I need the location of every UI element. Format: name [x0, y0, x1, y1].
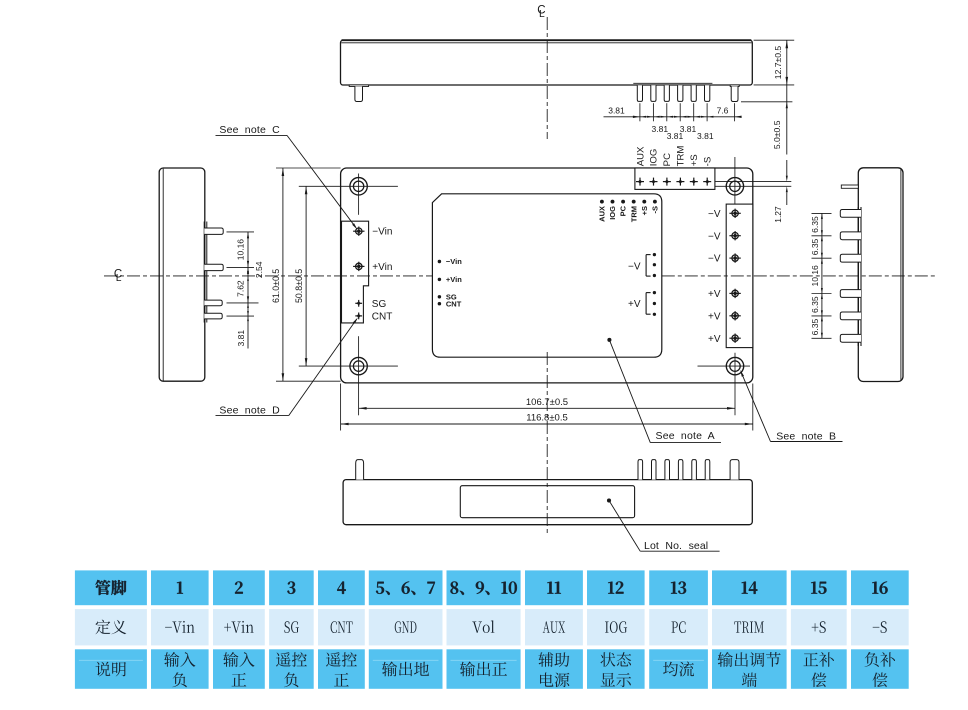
svg-text:+V: +V: [708, 334, 721, 345]
svg-text:See note B: See note B: [776, 430, 836, 442]
svg-text:−V: −V: [708, 231, 721, 242]
svg-text:−V: −V: [708, 254, 721, 265]
svg-text:CNT: CNT: [372, 311, 393, 322]
svg-text:+S: +S: [640, 206, 649, 215]
svg-text:6.35: 6.35: [810, 216, 820, 233]
svg-text:3.81: 3.81: [697, 131, 714, 141]
svg-text:6.35: 6.35: [810, 296, 820, 313]
svg-text:+Vin: +Vin: [372, 262, 392, 273]
svg-text:61.0±0.5: 61.0±0.5: [271, 269, 281, 303]
svg-text:IOG: IOG: [649, 149, 660, 167]
svg-text:−Vin: −Vin: [372, 227, 392, 238]
svg-text:+S: +S: [689, 154, 700, 166]
svg-text:7.62: 7.62: [236, 280, 246, 297]
svg-text:+V: +V: [708, 311, 721, 322]
svg-text:−V: −V: [628, 262, 641, 273]
svg-text:12.7±0.5: 12.7±0.5: [773, 46, 783, 80]
svg-text:3.81: 3.81: [608, 106, 625, 116]
svg-text:7.6: 7.6: [717, 106, 729, 116]
svg-text:PC: PC: [619, 205, 628, 216]
svg-text:AUX: AUX: [598, 206, 607, 222]
svg-text:3.81: 3.81: [667, 131, 684, 141]
svg-text:6.35: 6.35: [810, 319, 820, 336]
svg-text:+V: +V: [628, 299, 641, 310]
svg-text:+V: +V: [708, 289, 721, 300]
svg-text:3.81: 3.81: [236, 330, 246, 347]
svg-text:IOG: IOG: [608, 206, 617, 220]
svg-text:See note A: See note A: [656, 430, 715, 442]
svg-text:-S: -S: [703, 157, 714, 167]
svg-text:PC: PC: [662, 153, 673, 166]
svg-text:6.35: 6.35: [810, 238, 820, 255]
svg-text:10.16: 10.16: [236, 239, 246, 261]
svg-text:SG: SG: [372, 299, 387, 310]
svg-text:TRM: TRM: [676, 146, 687, 167]
svg-text:Lot No. seal: Lot No. seal: [644, 540, 708, 552]
svg-text:+Vin: +Vin: [446, 275, 462, 284]
svg-text:−V: −V: [708, 209, 721, 220]
svg-text:−Vin: −Vin: [446, 257, 462, 266]
svg-text:1.27: 1.27: [773, 206, 783, 223]
svg-text:See note C: See note C: [219, 124, 280, 136]
svg-text:See note D: See note D: [219, 404, 280, 416]
svg-text:TRM: TRM: [629, 206, 638, 222]
svg-text:L: L: [116, 273, 122, 284]
svg-text:50.8±0.5: 50.8±0.5: [294, 269, 304, 303]
svg-text:CNT: CNT: [446, 299, 462, 308]
svg-text:-S: -S: [651, 206, 660, 214]
svg-text:L: L: [539, 9, 545, 20]
svg-text:AUX: AUX: [635, 146, 646, 166]
svg-text:5.0±0.5: 5.0±0.5: [772, 120, 782, 149]
